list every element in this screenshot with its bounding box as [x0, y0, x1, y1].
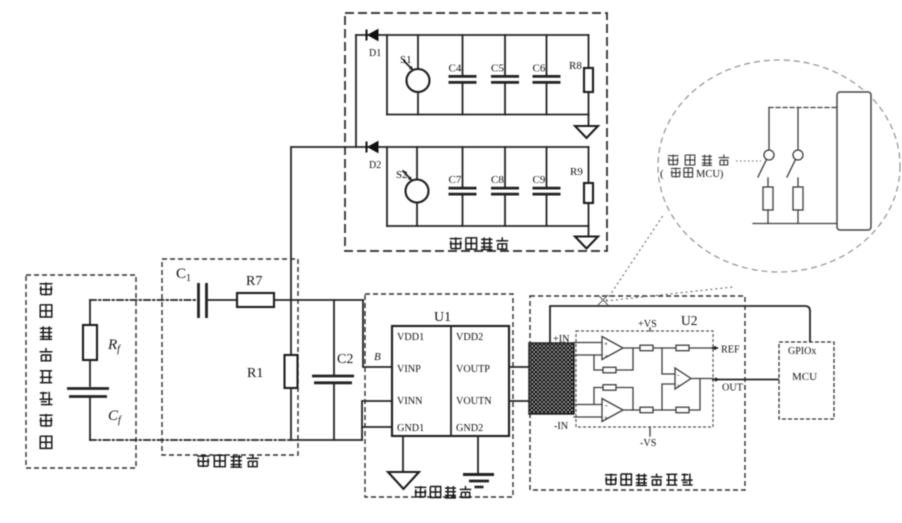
switch S-a [758, 108, 774, 188]
svg-text:VDD2: VDD2 [456, 332, 483, 343]
dotted leader to switches [736, 160, 761, 162]
wire B feedback input [574, 388, 633, 411]
svg-text:(: ( [660, 168, 664, 180]
callout source mark [598, 295, 608, 305]
signal isolation enclosure [365, 294, 513, 497]
wire row1 top [356, 34, 589, 36]
wire bottom solid [291, 439, 362, 441]
svg-text:R8: R8 [569, 60, 582, 72]
wire A feedback input [574, 348, 633, 370]
resistor Rf [83, 300, 121, 360]
svg-text:VINP: VINP [397, 364, 421, 375]
resistor R1 [247, 300, 298, 440]
wire row1 bottom [387, 114, 589, 116]
label 燃料电池等效模型 [40, 283, 53, 449]
wire link D1 to D2 [355, 35, 357, 147]
svg-text:+IN: +IN [553, 334, 570, 345]
capacitor C4 [449, 35, 477, 115]
surge suppressor S2 [396, 147, 429, 226]
wire dash top [90, 299, 197, 301]
IC U2 outline [576, 331, 713, 427]
svg-text:B: B [374, 351, 381, 363]
svg-text:VOUTN: VOUTN [456, 396, 492, 407]
callout leader line upper [606, 214, 664, 301]
label 信号隔离 [415, 486, 472, 498]
wire junction to C non-inverting [662, 384, 675, 410]
svg-text:C4: C4 [449, 63, 462, 75]
svg-text:MCU: MCU [792, 371, 817, 383]
svg-text:VOUTP: VOUTP [456, 364, 490, 375]
svg-text:S1: S1 [400, 54, 412, 66]
svg-text:-VS: -VS [640, 438, 657, 449]
fuel cell equivalent model enclosure [26, 275, 136, 468]
wire OUT to MCU [691, 377, 779, 393]
resistor Rb1 [640, 407, 653, 413]
svg-text:MCU): MCU) [696, 169, 724, 180]
svg-text:D2: D2 [369, 160, 381, 171]
label -VS [640, 427, 657, 449]
diode D2 [367, 142, 382, 172]
diode D1 [367, 30, 382, 60]
bottom rail wires [623, 380, 700, 411]
pull resistor Rb [793, 187, 803, 210]
enable signal wire [550, 306, 810, 343]
surge suppressor S1 [400, 35, 430, 115]
wire row2 left [386, 147, 388, 226]
high-pass filter enclosure [162, 259, 298, 455]
MCU box [779, 342, 834, 419]
label 仪表放大模块 [605, 474, 693, 486]
wire to VINP [363, 300, 392, 367]
callout circle [658, 60, 900, 272]
svg-text:C7: C7 [449, 174, 462, 186]
svg-text:+: + [677, 383, 681, 390]
wires to bottom rail [768, 210, 798, 224]
capacitor C9 [533, 147, 561, 226]
svg-text:R9: R9 [570, 166, 583, 178]
resistor Rb2 [676, 407, 689, 413]
svg-text:GPIOx: GPIOx [788, 346, 816, 357]
wire to VINN and GND1 [362, 401, 392, 440]
svg-text:S2: S2 [396, 169, 408, 181]
label 高通滤波 [197, 455, 259, 467]
op-amp C [675, 368, 691, 390]
resistor R8 [569, 35, 593, 115]
resistor RB [603, 385, 616, 391]
svg-text:C8: C8 [491, 174, 504, 186]
resistor R7 [237, 274, 363, 307]
capacitor Cf [67, 360, 122, 440]
wire dash bottom [90, 439, 291, 441]
capacitor C8 [491, 147, 519, 226]
svg-text:OUT: OUT [722, 383, 744, 394]
svg-text:VDD1: VDD1 [397, 332, 424, 343]
capacitor C7 [449, 147, 477, 226]
svg-text:D1: D1 [369, 48, 381, 59]
ground chassis under GND1 [388, 436, 419, 489]
wire -IN to opamp B [574, 416, 602, 418]
IC U1 [392, 310, 509, 436]
amplifier body detail [837, 92, 871, 230]
coupling block (hatched) [529, 343, 574, 414]
wire +IN to opamp A [574, 342, 602, 344]
op-amp B [602, 399, 623, 423]
svg-text:R1: R1 [247, 366, 263, 381]
wire junction to C inverting [662, 348, 675, 374]
svg-text:VINN: VINN [397, 396, 423, 407]
resistor R9 [570, 147, 593, 226]
capacitor C5 [491, 35, 519, 115]
label （来自MCU） [660, 168, 724, 180]
wire REF output [712, 345, 740, 356]
switch S-b [787, 108, 803, 188]
label 开启信号 [668, 155, 729, 166]
svg-text:-IN: -IN [554, 421, 569, 432]
wire VOUTP [509, 366, 529, 368]
svg-text:+: + [604, 414, 608, 422]
capacitor C1 [176, 266, 237, 318]
instrumentation amplifier module enclosure [530, 296, 745, 490]
svg-text:C2: C2 [337, 352, 353, 367]
ground row1 [575, 115, 598, 139]
wire VOUTN [509, 400, 529, 402]
wire row1 left [386, 35, 388, 115]
svg-text:GND1: GND1 [397, 423, 424, 434]
svg-text:GND2: GND2 [456, 423, 483, 434]
svg-text:C5: C5 [491, 63, 504, 75]
wire row2 top + link to filter [291, 147, 589, 300]
switch detail top rail [769, 107, 837, 109]
svg-text:R7: R7 [246, 274, 262, 289]
top rail wires [623, 347, 712, 349]
ground earth under GND2 [463, 436, 494, 487]
wire row2 bottom [387, 225, 589, 227]
resistor Rt2 [676, 345, 689, 351]
svg-text:-: - [605, 401, 608, 410]
svg-text:REF: REF [721, 345, 740, 356]
svg-text:-: - [605, 351, 608, 360]
bottom rail [753, 223, 837, 225]
svg-text:U1: U1 [434, 310, 451, 325]
label 保护电路 [450, 237, 509, 249]
svg-text:+: + [604, 340, 608, 348]
resistor Rt1 [640, 345, 653, 351]
svg-text:U2: U2 [681, 313, 698, 328]
label +VS [638, 319, 657, 331]
svg-text:C9: C9 [533, 174, 546, 186]
resistor RA [603, 367, 616, 373]
capacitor C6 [533, 35, 561, 115]
protection circuit enclosure [345, 13, 607, 251]
capacitor C2 [312, 300, 354, 440]
pull resistor Ra [763, 187, 773, 210]
op-amp A [602, 337, 623, 361]
ground row2 [575, 226, 598, 249]
callout leader line lower [606, 287, 733, 301]
svg-text:+VS: +VS [638, 319, 657, 330]
svg-text:C6: C6 [533, 63, 546, 75]
